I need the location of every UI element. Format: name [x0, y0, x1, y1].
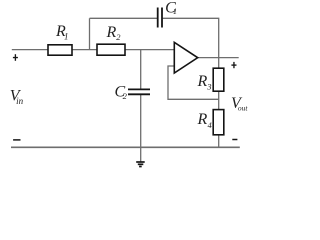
svg-text:out: out	[238, 103, 249, 112]
svg-text:R: R	[106, 24, 117, 41]
svg-text:R: R	[197, 73, 208, 90]
svg-text:2: 2	[123, 91, 128, 101]
svg-text:in: in	[16, 96, 24, 106]
svg-text:R: R	[197, 111, 208, 128]
svg-text:3: 3	[206, 81, 211, 91]
svg-text:2: 2	[116, 32, 121, 42]
svg-text:1: 1	[173, 6, 177, 16]
svg-text:4: 4	[208, 120, 213, 130]
svg-text:1: 1	[64, 31, 69, 41]
